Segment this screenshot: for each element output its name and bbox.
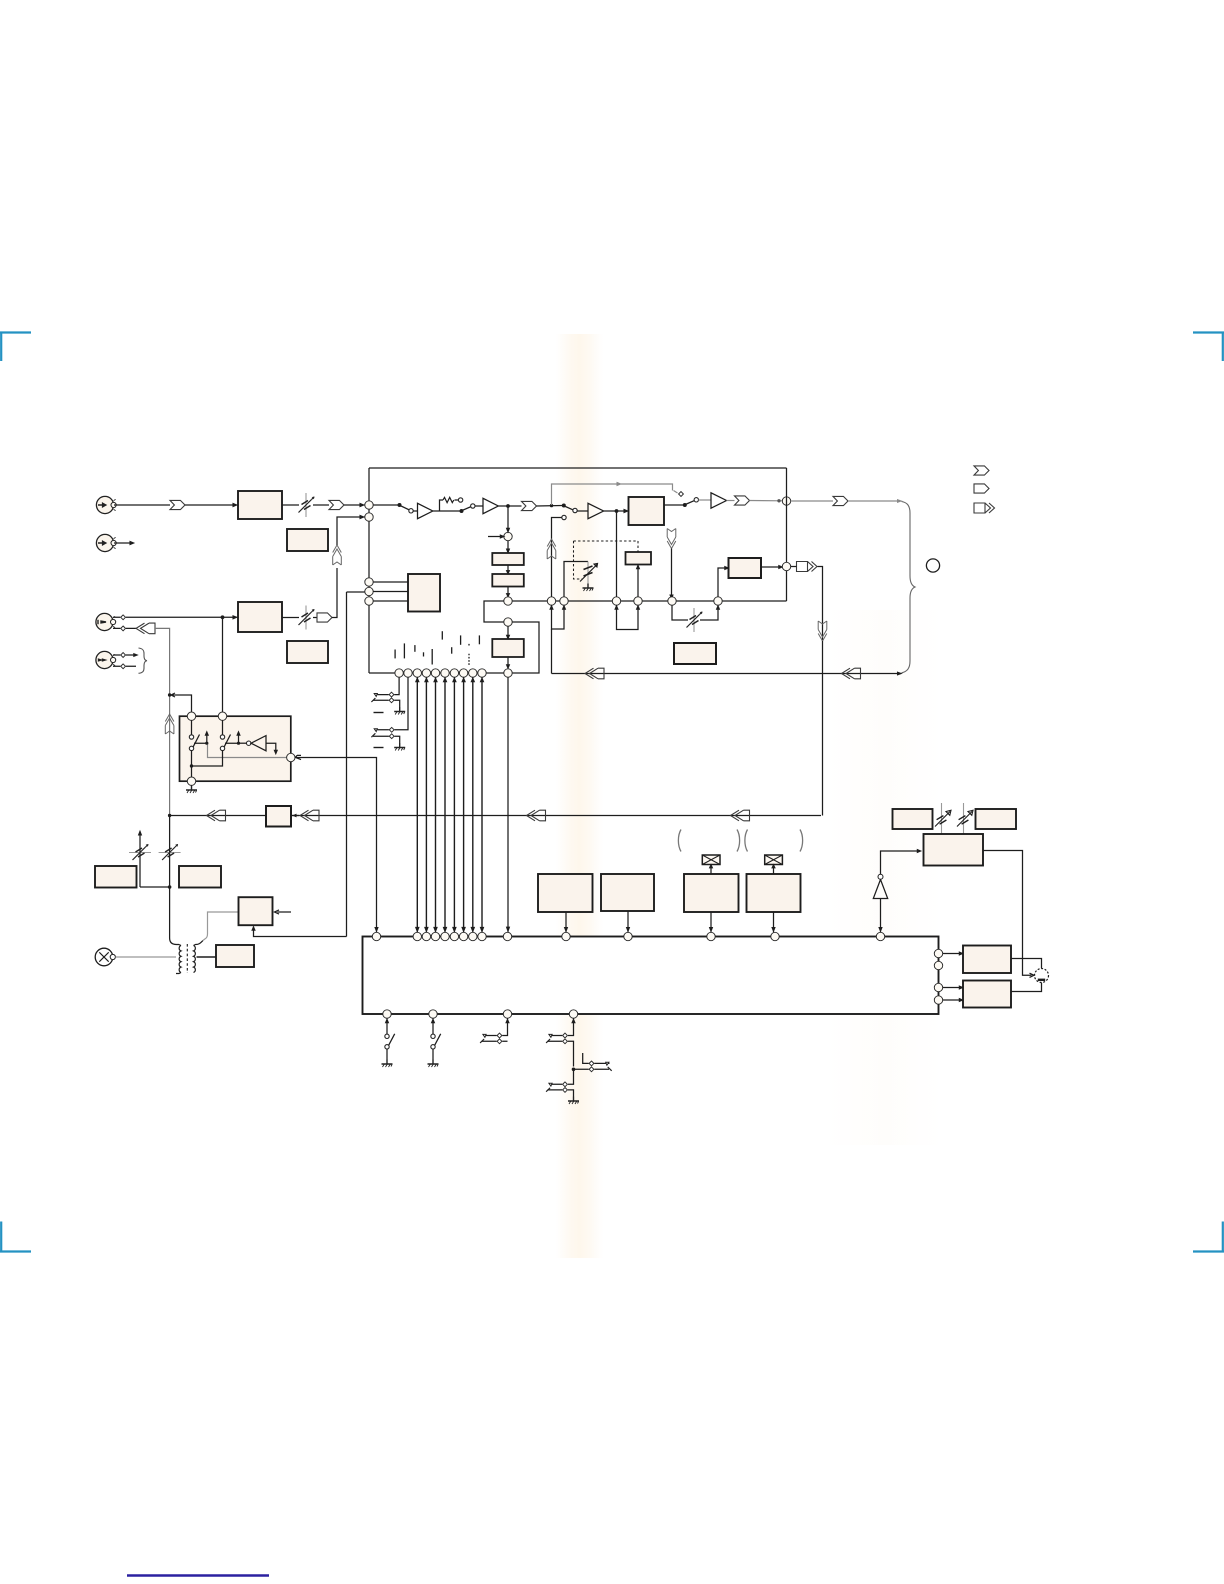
block B2 (dolby nr 2) xyxy=(492,565,524,587)
switch unit box xyxy=(180,716,291,781)
trimmer RV5 xyxy=(159,816,181,939)
node K xyxy=(668,597,676,605)
switch S5 xyxy=(189,721,208,751)
switch SW-F xyxy=(546,1018,612,1104)
node D xyxy=(504,597,512,605)
trimmer cap C1 xyxy=(564,562,598,597)
block B1 (dolby nr 1) xyxy=(492,506,524,565)
wire to aux line xyxy=(551,629,553,674)
wire top loop xyxy=(369,467,787,469)
node R4 xyxy=(287,753,295,761)
block C1 (dub select) xyxy=(266,806,291,827)
solenoid X1 xyxy=(702,855,720,874)
block B5 (rec cal) xyxy=(718,558,782,597)
solenoid X2 xyxy=(765,855,783,874)
node S11 xyxy=(562,932,570,940)
node dot xyxy=(168,693,171,696)
wire stub xyxy=(113,654,137,656)
wire xyxy=(943,986,963,989)
wire xyxy=(943,999,963,1002)
node S19 xyxy=(934,996,942,1004)
wire xyxy=(1011,959,1042,969)
wire to syscon xyxy=(295,755,378,932)
block E3 (servo ctrl) xyxy=(924,834,984,866)
block C3 (pb eq) xyxy=(179,866,221,888)
paren ( xyxy=(745,830,748,852)
node S18 xyxy=(934,983,942,991)
node R3 xyxy=(187,777,195,785)
contact lower xyxy=(562,515,566,519)
node T3 xyxy=(503,1010,511,1018)
node J xyxy=(634,597,642,605)
right trunk xyxy=(786,468,788,601)
servo trunk x=346.5 xyxy=(346,592,348,937)
wire xyxy=(413,510,418,512)
tag T10 down (incoming pb) xyxy=(667,529,676,549)
node Q9 xyxy=(469,669,477,677)
wire xyxy=(282,617,317,619)
block E2 (remote) xyxy=(976,809,1017,829)
trimmer RV7 xyxy=(957,803,973,834)
wire xyxy=(113,616,223,618)
amp U2 xyxy=(483,498,498,513)
amp U6 up xyxy=(873,850,920,933)
block C4 (rectifier) xyxy=(216,945,254,967)
brace right xyxy=(902,502,916,673)
paren ( xyxy=(678,830,681,852)
paren ) xyxy=(737,830,740,852)
node Q4 xyxy=(422,669,430,677)
tag T3 receive xyxy=(136,623,155,634)
tag T11 xyxy=(797,562,818,572)
rec mute ties xyxy=(190,751,223,777)
node S1 xyxy=(372,932,380,940)
node E xyxy=(504,618,512,626)
pin stub 1 xyxy=(394,650,396,659)
paren ) xyxy=(800,830,803,852)
lamp xyxy=(95,948,115,966)
wire stub xyxy=(113,665,136,667)
node xyxy=(777,499,780,502)
pin stub 7 xyxy=(451,647,453,654)
tag T16 xyxy=(207,810,226,821)
node P xyxy=(365,597,373,605)
node H xyxy=(560,597,568,605)
wire secondary out xyxy=(197,956,217,958)
wire to trunk xyxy=(552,518,562,602)
node Q6 xyxy=(441,669,449,677)
crop mark bottom-left xyxy=(0,1222,31,1252)
pin stub 4 xyxy=(423,652,425,656)
node C xyxy=(782,497,790,505)
connector J2 line-in R xyxy=(96,534,116,551)
tag T5 up xyxy=(333,545,342,565)
trimmer RV4 xyxy=(129,831,151,887)
stub loop under I/J xyxy=(615,605,639,629)
amp U3 xyxy=(588,503,604,518)
node T2 xyxy=(429,1010,437,1018)
wire branch xyxy=(170,693,192,712)
gray wire xyxy=(848,500,901,502)
connector J1 line-in L xyxy=(96,496,116,513)
node Q7 xyxy=(450,669,458,677)
block D1 (counter) xyxy=(538,874,593,932)
stub wire xyxy=(488,535,504,538)
ground xyxy=(583,584,594,592)
node S12 xyxy=(624,932,632,940)
node S9 xyxy=(478,932,486,940)
switch SW-D xyxy=(428,1018,441,1067)
wire xyxy=(114,504,170,506)
block E4 (motor drive) xyxy=(963,946,1011,974)
gray riser to ps xyxy=(203,912,239,941)
block B3 (mpx filter) xyxy=(492,626,524,669)
gray mix wire xyxy=(208,745,287,758)
brace xyxy=(139,648,148,673)
connector J4 xyxy=(96,651,116,668)
pin stub 5 xyxy=(431,649,433,665)
node xyxy=(550,504,553,507)
contact xyxy=(121,653,126,658)
block A1 (line amp L) xyxy=(238,491,282,519)
rec indicator circle xyxy=(926,559,939,572)
node S8 xyxy=(469,932,477,940)
monitor trunk gray xyxy=(169,695,171,816)
contact xyxy=(121,626,126,631)
crop mark top-left xyxy=(0,333,31,362)
node T4 xyxy=(569,1010,577,1018)
transformer T901 xyxy=(170,938,203,974)
wire xyxy=(475,505,483,507)
switch S2 xyxy=(460,504,475,513)
wire xyxy=(223,616,239,619)
wire xyxy=(507,587,510,598)
switch S4 xyxy=(683,498,699,507)
node Q2 xyxy=(404,669,412,677)
node S7 xyxy=(459,932,467,940)
wire long down xyxy=(507,677,510,932)
gray wire xyxy=(699,499,712,501)
tag T12 down xyxy=(818,621,827,641)
pin stub 8 xyxy=(460,635,462,644)
block D3 (motor) xyxy=(684,874,739,932)
gray lamp wire xyxy=(115,956,176,958)
pin stub 6 xyxy=(441,631,443,639)
dashed trim box xyxy=(574,541,639,579)
stub with arrow xyxy=(275,910,292,914)
block A2 (bias osc) xyxy=(287,529,328,551)
wire up to head select xyxy=(332,568,337,618)
variable attenuator RV2 xyxy=(299,606,315,630)
syscon lines x8 xyxy=(416,677,483,932)
wire xyxy=(822,641,824,816)
wire xyxy=(498,505,521,507)
node Q1 xyxy=(395,669,403,677)
node O xyxy=(365,587,373,595)
gray wire xyxy=(727,500,735,502)
tag T7 up xyxy=(547,539,556,559)
amp U1 xyxy=(418,503,433,518)
tag T4 xyxy=(317,613,332,622)
node Q5 xyxy=(431,669,439,677)
node Q3 xyxy=(413,669,421,677)
ps bottom feed xyxy=(252,927,346,937)
bus wire xyxy=(369,672,504,674)
wire xyxy=(670,549,673,602)
node xyxy=(221,615,225,619)
block C2 (pb level) xyxy=(95,866,137,888)
node F xyxy=(504,669,512,677)
wire xyxy=(185,504,238,507)
node T1 xyxy=(383,1010,391,1018)
amp U4 xyxy=(711,493,727,508)
legend tag L1 xyxy=(974,466,989,475)
block D4 (motor 2) xyxy=(747,874,801,932)
node Q8 xyxy=(459,669,467,677)
block E1 (timer) xyxy=(893,809,933,829)
block B4 (level det) xyxy=(626,541,652,597)
gray wire out xyxy=(791,500,833,502)
wire x=616 xyxy=(616,511,618,597)
wire xyxy=(552,672,902,674)
contact xyxy=(121,615,126,620)
wire xyxy=(604,510,629,513)
block C5 (power supply) xyxy=(239,897,273,925)
variable attenuator RV1 xyxy=(299,493,315,517)
node G xyxy=(547,597,555,605)
node N xyxy=(365,578,373,586)
tie wire xyxy=(140,886,170,888)
wire xyxy=(373,504,399,506)
gray feedback from dubbing sw xyxy=(552,483,673,505)
box xyxy=(363,937,939,1015)
tag T1 xyxy=(170,500,185,509)
pin stub 2 xyxy=(403,643,405,658)
contact xyxy=(121,664,126,669)
node S6 xyxy=(450,932,458,940)
tag T8 xyxy=(735,496,750,505)
trimmer RV6 xyxy=(935,803,951,834)
tag T14 xyxy=(842,668,861,679)
tag T19 xyxy=(731,810,750,821)
arrow into C1 xyxy=(292,814,296,818)
tag T13 xyxy=(585,668,604,679)
wire xyxy=(337,516,365,545)
pin stub 3 xyxy=(414,645,416,652)
contact xyxy=(674,491,678,494)
pin stub 10 xyxy=(478,635,480,644)
bus wire xyxy=(508,600,787,602)
pin stub 9 xyxy=(468,644,470,665)
wire to monitor bus xyxy=(155,628,170,695)
node A xyxy=(365,501,373,509)
node dot xyxy=(168,885,172,889)
switch S1 xyxy=(398,503,414,513)
block D2 (display) xyxy=(601,874,654,932)
crop mark top-right xyxy=(1193,333,1224,362)
node dot xyxy=(168,814,171,817)
block E5 (motor 3) xyxy=(963,981,1011,1008)
node mpx xyxy=(504,532,512,540)
node S5 xyxy=(441,932,449,940)
switch SW-A xyxy=(371,677,405,714)
resistor R1 branch xyxy=(440,497,463,511)
switch S3 xyxy=(562,504,577,513)
switch SW-B xyxy=(371,677,408,750)
node S4 xyxy=(431,932,439,940)
wire xyxy=(1011,983,1042,992)
tag T6 xyxy=(522,501,537,510)
switch SW-E xyxy=(480,1018,509,1043)
node L xyxy=(714,597,722,605)
wire from servo trunk xyxy=(347,591,365,593)
switch S6 xyxy=(220,721,240,751)
tag T18 xyxy=(527,810,546,821)
legend tag L3 xyxy=(974,503,995,513)
node S2 xyxy=(413,932,421,940)
wire xyxy=(344,504,365,507)
wire stub xyxy=(114,542,134,545)
footer rule xyxy=(127,1574,269,1576)
tag T15 up xyxy=(165,714,174,734)
block A4 (eq) xyxy=(287,641,328,663)
inverter U5 xyxy=(239,736,278,754)
node S17 xyxy=(934,961,942,969)
legend tag L2 xyxy=(974,484,989,493)
crop mark bottom-right xyxy=(1193,1222,1224,1252)
node B xyxy=(365,513,373,521)
wire xyxy=(170,815,821,817)
wire xyxy=(282,504,329,506)
node S14 xyxy=(771,932,779,940)
stub loop under G/H xyxy=(550,605,565,629)
wire left trunk xyxy=(368,468,370,673)
wire xyxy=(537,505,563,508)
connector J3 rec out xyxy=(96,613,116,630)
bypass loop right xyxy=(512,622,539,673)
node S16 xyxy=(934,949,942,957)
node R2 xyxy=(218,712,226,720)
wire out xyxy=(983,851,1034,978)
wire xyxy=(433,510,461,512)
block A3 (rec amp) xyxy=(238,602,282,632)
bypass loop left xyxy=(484,601,504,622)
tag T17 xyxy=(300,810,319,821)
block B6 (meter drv) xyxy=(674,643,716,664)
node xyxy=(615,509,619,513)
node R1 xyxy=(187,712,195,720)
ground xyxy=(186,786,197,794)
block HD (head assy) xyxy=(408,574,440,612)
node I xyxy=(612,597,620,605)
wire xyxy=(113,627,136,629)
switch SW-C xyxy=(382,1018,395,1067)
gray wire xyxy=(750,500,783,502)
wire rec trunk xyxy=(222,617,224,712)
node M xyxy=(782,562,790,570)
node S15 xyxy=(876,932,884,940)
wire xyxy=(943,952,963,955)
battery terminal xyxy=(1035,969,1049,983)
node xyxy=(506,504,510,508)
tag T9 xyxy=(833,496,848,505)
node S3 xyxy=(422,932,430,940)
node S10 xyxy=(503,932,511,940)
wire xyxy=(664,504,684,506)
wire xyxy=(577,510,588,512)
var resistor RV3 loop xyxy=(672,605,719,632)
block A5 (rec/pb eq amp) xyxy=(629,497,665,525)
wire xyxy=(791,567,823,642)
node Q10 xyxy=(478,669,486,677)
node S13 xyxy=(707,932,715,940)
tag T2 xyxy=(329,500,344,509)
head wires xyxy=(373,582,408,601)
